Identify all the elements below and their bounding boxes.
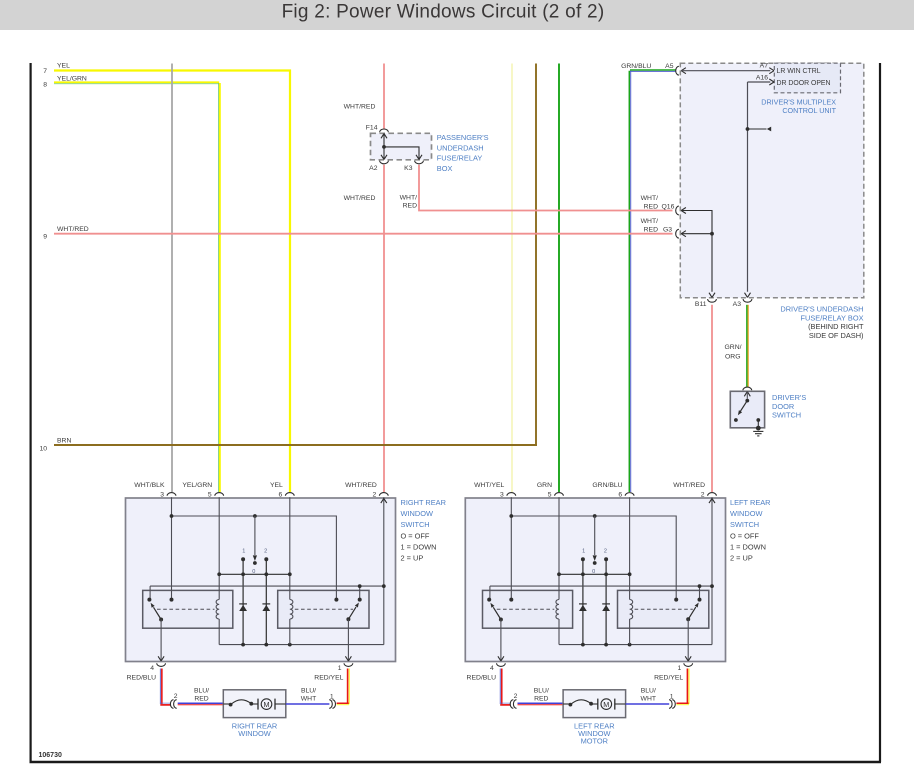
svg-text:4: 4: [150, 665, 154, 672]
svg-text:10: 10: [39, 446, 47, 453]
svg-text:BLU/: BLU/: [534, 688, 549, 695]
svg-text:1: 1: [678, 665, 682, 672]
svg-text:BOX: BOX: [437, 164, 453, 173]
svg-text:2: 2: [373, 492, 377, 499]
svg-text:YEL: YEL: [270, 482, 283, 489]
svg-text:RED: RED: [644, 227, 658, 234]
svg-text:WHT/RED: WHT/RED: [345, 482, 377, 489]
svg-text:FUSE/RELAY: FUSE/RELAY: [437, 154, 483, 163]
svg-text:PASSENGER'S: PASSENGER'S: [437, 133, 489, 142]
svg-text:4: 4: [490, 665, 494, 672]
svg-text:RED: RED: [534, 695, 548, 702]
svg-text:RIGHT REAR: RIGHT REAR: [401, 498, 446, 507]
svg-text:A16: A16: [756, 75, 768, 82]
svg-text:SWITCH: SWITCH: [772, 410, 801, 419]
svg-text:O = OFF: O = OFF: [401, 531, 430, 540]
svg-text:WHT/: WHT/: [641, 195, 658, 202]
svg-text:2: 2: [604, 548, 607, 554]
svg-text:RED/BLU: RED/BLU: [467, 675, 497, 682]
svg-text:UNDERDASH: UNDERDASH: [437, 143, 484, 152]
svg-text:8: 8: [43, 82, 47, 89]
svg-text:YEL: YEL: [57, 63, 70, 70]
svg-text:F14: F14: [366, 124, 378, 131]
svg-text:5: 5: [548, 492, 552, 499]
svg-text:Fig 2: Power Windows Circuit (: Fig 2: Power Windows Circuit (2 of 2): [282, 1, 605, 22]
svg-text:WHT/: WHT/: [400, 195, 417, 202]
svg-text:WHT/RED: WHT/RED: [673, 482, 705, 489]
svg-text:RED: RED: [194, 695, 208, 702]
svg-text:2: 2: [264, 548, 267, 554]
svg-text:BLU/: BLU/: [641, 688, 656, 695]
svg-text:WHT/RED: WHT/RED: [57, 226, 89, 233]
svg-text:2: 2: [514, 693, 518, 700]
svg-text:G3: G3: [663, 227, 672, 234]
svg-text:SWITCH: SWITCH: [730, 520, 759, 529]
svg-text:1: 1: [338, 665, 342, 672]
svg-text:K3: K3: [404, 165, 413, 172]
svg-text:6: 6: [279, 492, 283, 499]
svg-text:1: 1: [330, 694, 334, 701]
svg-text:GRN/BLU: GRN/BLU: [592, 482, 622, 489]
svg-text:YEL/GRN: YEL/GRN: [182, 482, 212, 489]
svg-text:RED: RED: [644, 203, 658, 210]
svg-text:1 = DOWN: 1 = DOWN: [401, 542, 437, 551]
svg-text:WINDOW: WINDOW: [401, 509, 433, 518]
svg-text:ORG: ORG: [725, 353, 740, 360]
svg-text:2 = UP: 2 = UP: [730, 554, 753, 563]
svg-text:A7: A7: [760, 63, 769, 70]
svg-text:WHT/RED: WHT/RED: [344, 195, 376, 202]
svg-text:3: 3: [160, 492, 164, 499]
svg-text:1: 1: [582, 548, 585, 554]
svg-text:FUSE/RELAY BOX: FUSE/RELAY BOX: [801, 313, 864, 322]
svg-text:GRN/: GRN/: [725, 344, 742, 351]
svg-text:5: 5: [208, 492, 212, 499]
svg-text:WINDOW: WINDOW: [238, 729, 270, 738]
svg-text:RED/BLU: RED/BLU: [127, 675, 157, 682]
svg-text:2 = UP: 2 = UP: [401, 554, 424, 563]
svg-text:BLU/: BLU/: [301, 688, 316, 695]
svg-text:106730: 106730: [39, 752, 62, 759]
svg-text:A5: A5: [665, 63, 674, 70]
svg-text:WHT/: WHT/: [641, 218, 658, 225]
svg-text:2: 2: [174, 693, 178, 700]
svg-text:7: 7: [43, 68, 47, 75]
svg-text:BRN: BRN: [57, 437, 71, 444]
svg-text:WINDOW: WINDOW: [730, 509, 762, 518]
svg-text:WHT: WHT: [641, 695, 656, 702]
svg-text:Q16: Q16: [662, 203, 675, 210]
svg-text:A3: A3: [733, 301, 742, 308]
svg-text:DR DOOR OPEN: DR DOOR OPEN: [777, 80, 831, 87]
svg-text:B11: B11: [695, 301, 707, 308]
svg-text:6: 6: [618, 492, 622, 499]
svg-text:M: M: [264, 700, 270, 709]
svg-text:GRN: GRN: [537, 482, 552, 489]
svg-text:MOTOR: MOTOR: [581, 737, 608, 746]
svg-text:WHT/BLK: WHT/BLK: [134, 482, 165, 489]
svg-text:RED/YEL: RED/YEL: [654, 675, 683, 682]
svg-text:RED: RED: [403, 202, 417, 209]
svg-text:WHT/RED: WHT/RED: [344, 103, 376, 110]
svg-text:WHT: WHT: [301, 695, 316, 702]
svg-text:GRN/BLU: GRN/BLU: [621, 63, 651, 70]
svg-text:SIDE OF DASH): SIDE OF DASH): [809, 331, 864, 340]
svg-text:A2: A2: [369, 165, 378, 172]
svg-text:LEFT REAR: LEFT REAR: [730, 498, 771, 507]
svg-text:1 = DOWN: 1 = DOWN: [730, 542, 766, 551]
svg-text:1: 1: [670, 694, 674, 701]
svg-text:BLU/: BLU/: [194, 688, 209, 695]
svg-text:DRIVER'S UNDERDASH: DRIVER'S UNDERDASH: [780, 305, 863, 314]
svg-text:9: 9: [43, 234, 47, 241]
svg-text:LR WIN CTRL: LR WIN CTRL: [777, 68, 821, 75]
svg-text:RED/YEL: RED/YEL: [314, 675, 343, 682]
svg-text:(BEHIND RIGHT: (BEHIND RIGHT: [808, 322, 864, 331]
svg-text:3: 3: [500, 492, 504, 499]
svg-text:1: 1: [242, 548, 245, 554]
svg-text:SWITCH: SWITCH: [401, 520, 430, 529]
svg-text:YEL/GRN: YEL/GRN: [57, 75, 87, 82]
svg-text:WHT/YEL: WHT/YEL: [474, 482, 504, 489]
svg-text:M: M: [603, 700, 609, 709]
svg-text:O = OFF: O = OFF: [730, 531, 759, 540]
svg-text:2: 2: [701, 492, 705, 499]
svg-text:CONTROL UNIT: CONTROL UNIT: [782, 106, 836, 115]
